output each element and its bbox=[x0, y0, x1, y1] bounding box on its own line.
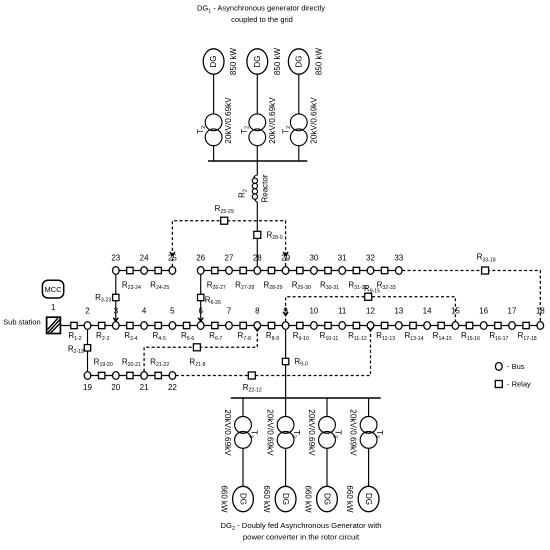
label R6-7 bbox=[209, 331, 222, 342]
arrow into bus 3 bbox=[113, 318, 118, 322]
relay R6-26 bbox=[198, 294, 204, 300]
bus 20 bbox=[113, 372, 120, 380]
node label 30 bbox=[309, 253, 318, 262]
legend label Bus bbox=[507, 362, 525, 371]
bus 15 bbox=[452, 322, 459, 330]
arrow into bus 9 bbox=[283, 312, 288, 316]
label T2 (unit 1) bbox=[196, 126, 207, 134]
svg-text:850 kW: 850 kW bbox=[229, 47, 238, 75]
bus 10 bbox=[311, 322, 318, 330]
svg-text:20kV/0.69kV: 20kV/0.69kV bbox=[307, 409, 316, 456]
label R28-0 bbox=[267, 230, 283, 241]
label T2 (unit 3) bbox=[281, 126, 292, 134]
relay R13-14 bbox=[410, 322, 416, 328]
label T3 (unit 4) bbox=[373, 430, 384, 438]
svg-text:power converter in the rotor c: power converter in the rotor circuit bbox=[243, 533, 360, 542]
transformer T3 unit 3 bbox=[319, 417, 336, 449]
value label 850 kW (G1) bbox=[229, 47, 238, 75]
svg-text:MCC: MCC bbox=[44, 285, 62, 294]
bus 23 bbox=[113, 267, 120, 275]
node label 19 bbox=[83, 383, 92, 392]
node 1 substation infeed bbox=[47, 317, 61, 333]
value label 660 kW (DG2-1) bbox=[220, 485, 229, 513]
wire: transformer T3 unit 3 to generator bbox=[326, 448, 328, 486]
label T3 (unit 1) bbox=[248, 430, 259, 438]
generator DG2-2 (DG 660 kW) bbox=[275, 486, 296, 511]
svg-text:27: 27 bbox=[225, 253, 234, 262]
svg-text:5: 5 bbox=[170, 307, 175, 316]
relay R31-32 bbox=[353, 267, 359, 273]
bus 24 bbox=[141, 267, 148, 275]
svg-text:16: 16 bbox=[479, 307, 488, 316]
svg-text:- Relay: - Relay bbox=[507, 380, 531, 389]
svg-text:DG: DG bbox=[253, 56, 262, 68]
wire: collector bus to transformer T3 unit 1 bbox=[242, 398, 244, 417]
relay R8-9 bbox=[268, 322, 274, 328]
svg-text:Sub station: Sub station bbox=[3, 317, 41, 326]
value label 20kV/0.69kV (T3 unit 4) bbox=[349, 409, 358, 456]
bus 3 bbox=[113, 322, 120, 330]
relay R17-18 bbox=[523, 322, 529, 328]
bus 5 bbox=[169, 322, 176, 330]
label R10-11 bbox=[320, 331, 339, 342]
relay R16-17 bbox=[495, 322, 501, 328]
label R2-3 bbox=[96, 331, 109, 342]
value label 660 kW (DG2-2) bbox=[262, 485, 271, 513]
relay R9-0 bbox=[282, 358, 288, 364]
transformer T3 unit 1 bbox=[235, 417, 252, 449]
svg-text:3: 3 bbox=[114, 307, 119, 316]
label R1-2 bbox=[68, 331, 81, 342]
svg-text:20kV/0.69kV: 20kV/0.69kV bbox=[268, 97, 277, 144]
svg-text:30: 30 bbox=[309, 253, 318, 262]
value label 20kV/0.69kV (T3 unit 1) bbox=[223, 409, 232, 456]
node label 25 bbox=[168, 253, 177, 262]
wire: transformer T3 unit 2 to generator bbox=[285, 448, 287, 486]
node label 13 bbox=[394, 307, 403, 316]
label R3-23 bbox=[95, 293, 111, 304]
svg-text:9: 9 bbox=[283, 307, 288, 316]
relay R2-19 bbox=[84, 345, 90, 351]
generator G2 (DG 850 kW) bbox=[247, 49, 268, 74]
svg-text:850 kW: 850 kW bbox=[314, 47, 323, 75]
label R2 bbox=[238, 189, 249, 198]
wire: bus2 to bus19 bbox=[87, 329, 89, 371]
svg-text:12: 12 bbox=[366, 307, 375, 316]
label R24-25 bbox=[150, 280, 169, 291]
svg-text:DG: DG bbox=[294, 56, 303, 68]
svg-text:15: 15 bbox=[451, 307, 460, 316]
svg-text:25: 25 bbox=[168, 253, 177, 262]
caption DG2 line 2 bbox=[243, 533, 360, 542]
wire: collector bus to transformer T3 unit 4 bbox=[368, 398, 370, 417]
svg-text:660 kW: 660 kW bbox=[345, 485, 354, 513]
node label 18 bbox=[536, 307, 545, 316]
relay R21-8 bbox=[193, 344, 200, 351]
label R16-17 bbox=[489, 331, 508, 342]
relay R29-30 bbox=[297, 267, 303, 273]
svg-text:20kV/0.69kV: 20kV/0.69kV bbox=[224, 97, 233, 144]
relay R15-16 bbox=[466, 322, 472, 328]
bus 19 bbox=[84, 372, 91, 380]
bus 30 bbox=[311, 267, 318, 275]
svg-text:20kV/0.69kV: 20kV/0.69kV bbox=[309, 97, 318, 144]
label R7-8 bbox=[238, 331, 251, 342]
svg-text:18: 18 bbox=[536, 307, 545, 316]
relay R3-4 bbox=[127, 322, 133, 328]
relay R9-15 bbox=[365, 293, 372, 300]
svg-text:21: 21 bbox=[140, 383, 149, 392]
node label 3 bbox=[114, 307, 119, 316]
label R25-29 bbox=[215, 204, 234, 215]
bus 9 bbox=[282, 322, 289, 330]
transformer T3 unit 4 bbox=[360, 417, 377, 449]
value label 20kV/0.69kV (T2 unit 2) bbox=[268, 97, 277, 144]
bus 28 bbox=[254, 267, 261, 275]
generator G1 (DG 850 kW) bbox=[203, 49, 224, 74]
label R33-18 bbox=[477, 253, 496, 264]
bus 4 bbox=[141, 322, 148, 330]
relay R1-2 bbox=[71, 322, 77, 328]
relay R4-5 bbox=[155, 322, 161, 328]
transformer T2 unit 3 bbox=[290, 114, 307, 146]
label R14-15 bbox=[433, 331, 452, 342]
relay R7-8 bbox=[240, 322, 246, 328]
label R28-29 bbox=[263, 280, 282, 291]
node label 10 bbox=[309, 307, 318, 316]
arrow into bus 8 bbox=[255, 327, 260, 331]
bus 26 bbox=[197, 267, 204, 275]
node label 31 bbox=[338, 253, 347, 262]
arrow into bus 29 bbox=[283, 252, 288, 256]
node label 33 bbox=[394, 253, 403, 262]
label R31-32 bbox=[348, 280, 367, 291]
wire: bus9 to DG2 collector bus bbox=[285, 329, 287, 398]
label R9-15 bbox=[364, 284, 380, 295]
label R9-0 bbox=[295, 357, 308, 368]
label R22-12 bbox=[243, 383, 262, 394]
relay R26-27 bbox=[212, 267, 218, 273]
node label 5 bbox=[170, 307, 175, 316]
svg-text:33: 33 bbox=[394, 253, 403, 262]
svg-text:6: 6 bbox=[198, 307, 203, 316]
wire: dashed tie bus25 to bus29 bbox=[172, 221, 285, 267]
relay R3-23 bbox=[113, 294, 119, 300]
generator G3 (DG 850 kW) bbox=[288, 49, 309, 74]
svg-text:660 kW: 660 kW bbox=[304, 485, 313, 513]
bus 25 bbox=[169, 267, 176, 275]
transformer T2 unit 1 bbox=[205, 114, 222, 146]
arrow into bus 6 bbox=[198, 318, 203, 322]
wire: collector bus to reactor R2 bbox=[256, 161, 258, 175]
caption DG2 line 1 bbox=[220, 521, 381, 532]
node label 21 bbox=[140, 383, 149, 392]
value label 850 kW (G3) bbox=[314, 47, 323, 75]
relay R22-12 bbox=[248, 372, 255, 379]
relay R28-29 bbox=[268, 267, 274, 273]
wire: dashed tie bus33 to bus18 bbox=[402, 271, 540, 322]
label R19-20 bbox=[94, 357, 113, 368]
svg-text:Reactor: Reactor bbox=[261, 174, 270, 202]
generator DG2-3 (DG 660 kW) bbox=[317, 486, 338, 511]
svg-text:17: 17 bbox=[508, 307, 517, 316]
svg-text:20kV/0.69kV: 20kV/0.69kV bbox=[223, 409, 232, 456]
node label 22 bbox=[168, 383, 177, 392]
node label 12 bbox=[366, 307, 375, 316]
svg-text:coupled to the grid: coupled to the grid bbox=[231, 15, 293, 24]
svg-text:660 kW: 660 kW bbox=[262, 485, 271, 513]
svg-text:24: 24 bbox=[140, 253, 149, 262]
wire: generator G3 to transformer bbox=[298, 74, 300, 114]
bus 33 bbox=[396, 267, 403, 275]
label R6-26 bbox=[205, 296, 221, 307]
wire: dashed tie bus9 to bus15 bbox=[286, 297, 456, 322]
label R32-33 bbox=[377, 280, 396, 291]
svg-text:19: 19 bbox=[83, 383, 92, 392]
node label 16 bbox=[479, 307, 488, 316]
node label 9 bbox=[283, 307, 288, 316]
value label 20kV/0.69kV (T2 unit 3) bbox=[309, 97, 318, 144]
generator DG2-4 (DG 660 kW) bbox=[358, 486, 379, 511]
node label 1 bbox=[51, 303, 56, 312]
relay R21-22 bbox=[155, 372, 161, 378]
node label 15 bbox=[451, 307, 460, 316]
value label 20kV/0.69kV (T2 unit 1) bbox=[224, 97, 233, 144]
svg-text:26: 26 bbox=[196, 253, 205, 262]
wire: transformer T3 unit 4 to generator bbox=[368, 448, 370, 486]
node label 20 bbox=[111, 383, 120, 392]
relay R24-25 bbox=[155, 267, 161, 273]
bus 29 bbox=[282, 267, 289, 275]
label R27-28 bbox=[235, 280, 254, 291]
bus 7 bbox=[226, 322, 233, 330]
relay R6-7 bbox=[212, 322, 218, 328]
legend label Relay bbox=[507, 380, 531, 389]
label T2 (unit 2) bbox=[240, 126, 251, 134]
wire: collector bus to transformer T3 unit 2 bbox=[285, 398, 287, 417]
value label 850 kW (G2) bbox=[273, 47, 282, 75]
bus 14 bbox=[424, 322, 431, 330]
value label 20kV/0.69kV (T3 unit 3) bbox=[307, 409, 316, 456]
label R2-19 bbox=[68, 345, 84, 356]
svg-text:DG: DG bbox=[209, 56, 218, 68]
svg-text:28: 28 bbox=[253, 253, 262, 262]
node label 24 bbox=[140, 253, 149, 262]
wire: bus23 to bus3 bbox=[115, 274, 117, 321]
label R4-5 bbox=[153, 331, 166, 342]
bus 22 bbox=[169, 372, 176, 380]
label R21-22 bbox=[150, 357, 169, 368]
wire: transformer T2 unit 3 to collector bus bbox=[298, 146, 300, 161]
bus 27 bbox=[226, 267, 233, 275]
relay R33-18 bbox=[482, 267, 489, 274]
svg-text:20kV/0.69kV: 20kV/0.69kV bbox=[349, 409, 358, 456]
bus 16 bbox=[480, 322, 487, 330]
label R9-10 bbox=[293, 331, 309, 342]
legend bus symbol bbox=[495, 363, 502, 371]
transformer T2 unit 2 bbox=[249, 114, 266, 146]
legend relay symbol bbox=[495, 381, 502, 388]
wire: generator G1 to transformer bbox=[213, 74, 215, 114]
relay R27-28 bbox=[240, 267, 246, 273]
bus 17 bbox=[509, 322, 516, 330]
svg-text:7: 7 bbox=[227, 307, 232, 316]
wire: transformer T3 unit 1 to generator bbox=[242, 448, 244, 486]
label T3 (unit 3) bbox=[332, 430, 343, 438]
label R29-30 bbox=[292, 280, 311, 291]
svg-text:850 kW: 850 kW bbox=[273, 47, 282, 75]
svg-text:20kV/0.69kV: 20kV/0.69kV bbox=[266, 409, 275, 456]
value label 20kV/0.69kV (T3 unit 2) bbox=[266, 409, 275, 456]
node label 29 bbox=[281, 253, 290, 262]
svg-text:31: 31 bbox=[338, 253, 347, 262]
node label 8 bbox=[255, 307, 260, 316]
svg-text:660 kW: 660 kW bbox=[220, 485, 229, 513]
label R8-9 bbox=[266, 331, 279, 342]
svg-text:22: 22 bbox=[168, 383, 177, 392]
bus 8 bbox=[254, 322, 261, 330]
label MCC bbox=[44, 285, 62, 294]
generator DG2-1 (DG 660 kW) bbox=[233, 486, 254, 511]
bus 11 bbox=[339, 322, 346, 330]
bus 32 bbox=[367, 267, 374, 275]
bus 2 bbox=[84, 322, 91, 330]
bus 18 bbox=[537, 322, 544, 330]
wire: main feeder bus line bbox=[60, 325, 540, 327]
relay R20-21 bbox=[127, 372, 133, 378]
svg-text:DG: DG bbox=[281, 493, 290, 505]
wire: transformer T2 unit 1 to collector bus bbox=[213, 146, 215, 161]
relay R25-29 bbox=[221, 217, 228, 224]
svg-text:DG: DG bbox=[239, 493, 248, 505]
label Sub station bbox=[3, 317, 41, 326]
relay R30-31 bbox=[325, 267, 331, 273]
relay R11-12 bbox=[353, 322, 359, 328]
bus 21 bbox=[141, 372, 148, 380]
node label 2 bbox=[85, 307, 90, 316]
relay R14-15 bbox=[438, 322, 444, 328]
label R21-8 bbox=[189, 357, 205, 368]
value label 660 kW (DG2-3) bbox=[304, 485, 313, 513]
svg-text:32: 32 bbox=[366, 253, 375, 262]
label R26-27 bbox=[207, 280, 226, 291]
svg-text:29: 29 bbox=[281, 253, 290, 262]
label R30-31 bbox=[320, 280, 339, 291]
relay R28-0 bbox=[254, 231, 261, 238]
caption DG1 line 1 bbox=[197, 4, 325, 15]
relay R12-13 bbox=[381, 322, 387, 328]
node label 7 bbox=[227, 307, 232, 316]
svg-text:1: 1 bbox=[51, 303, 56, 312]
node label 23 bbox=[111, 253, 120, 262]
label R23-24 bbox=[122, 280, 141, 291]
caption DG1 line 2 bbox=[231, 15, 293, 24]
node label 28 bbox=[253, 253, 262, 262]
wire: bus26 to bus6 bbox=[200, 274, 202, 321]
wire: collector bus to transformer T3 unit 3 bbox=[326, 398, 328, 417]
arrow into bus 25 bbox=[170, 252, 175, 256]
MCC box bbox=[42, 280, 63, 298]
label Reactor bbox=[261, 174, 270, 202]
reactor R2 bbox=[252, 175, 257, 202]
node label 11 bbox=[338, 307, 347, 316]
bus 13 bbox=[396, 322, 403, 330]
wire: dashed tie bus21 to bus8 bbox=[144, 329, 257, 371]
node label 14 bbox=[423, 307, 432, 316]
arrow into bus 12 bbox=[368, 327, 373, 331]
wire: lower feeder 19-22 bbox=[88, 375, 173, 377]
svg-text:2: 2 bbox=[85, 307, 90, 316]
relay R23-24 bbox=[127, 267, 133, 273]
relay R32-33 bbox=[381, 267, 387, 273]
svg-text:- Bus: - Bus bbox=[507, 362, 525, 371]
relay R19-20 bbox=[99, 372, 105, 378]
label T3 (unit 2) bbox=[290, 430, 301, 438]
bus 31 bbox=[339, 267, 346, 275]
relay R2-3 bbox=[99, 322, 105, 328]
svg-text:23: 23 bbox=[111, 253, 120, 262]
relay R5-6 bbox=[183, 322, 189, 328]
svg-text:8: 8 bbox=[255, 307, 260, 316]
label R17-18 bbox=[518, 331, 537, 342]
wire: transformer T2 unit 2 to collector bus bbox=[256, 146, 258, 161]
wire: DG1 collector bus bbox=[208, 160, 307, 162]
svg-text:DG: DG bbox=[323, 493, 332, 505]
value label 660 kW (DG2-4) bbox=[345, 485, 354, 513]
svg-text:11: 11 bbox=[338, 307, 347, 316]
wire: generator G2 to transformer bbox=[256, 74, 258, 114]
wire: upper feeder 23-25 bbox=[116, 270, 173, 272]
label R15-16 bbox=[461, 331, 480, 342]
svg-text:20: 20 bbox=[111, 383, 120, 392]
relay R10-11 bbox=[325, 322, 331, 328]
svg-text:DG: DG bbox=[364, 493, 373, 505]
bus 12 bbox=[367, 322, 374, 330]
label R20-21 bbox=[122, 357, 141, 368]
node label 17 bbox=[508, 307, 517, 316]
relay R9-10 bbox=[297, 322, 303, 328]
svg-text:4: 4 bbox=[142, 307, 147, 316]
bus 6 bbox=[197, 322, 204, 330]
svg-text:13: 13 bbox=[394, 307, 403, 316]
node label 26 bbox=[196, 253, 205, 262]
label R12-13 bbox=[376, 331, 395, 342]
wire: upper feeder 26-33 bbox=[201, 270, 399, 272]
wire: dashed tie bus22 to bus12 bbox=[176, 329, 371, 375]
label R3-4 bbox=[124, 331, 137, 342]
transformer T3 unit 2 bbox=[277, 417, 294, 449]
node label 27 bbox=[225, 253, 234, 262]
svg-text:14: 14 bbox=[423, 307, 432, 316]
label R13-14 bbox=[404, 331, 423, 342]
label R11-12 bbox=[348, 331, 367, 342]
node label 6 bbox=[198, 307, 203, 316]
wire: DG2 collector bus bbox=[231, 397, 381, 399]
node label 32 bbox=[366, 253, 375, 262]
svg-text:10: 10 bbox=[309, 307, 318, 316]
node label 4 bbox=[142, 307, 147, 316]
label R5-6 bbox=[181, 331, 194, 342]
wire: reactor R2 to bus 28 bbox=[256, 202, 258, 271]
